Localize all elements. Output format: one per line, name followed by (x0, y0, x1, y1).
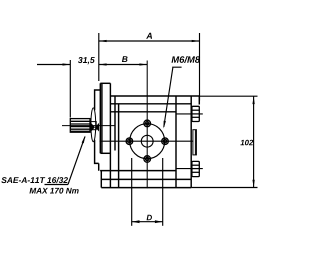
body internal vertical front (114, 96, 116, 151)
body front face (109, 83, 111, 187)
dimension D extension right (162, 158, 164, 226)
port pattern horizontal centerline (100, 140, 194, 142)
body internal line L5 (100, 170, 176, 172)
dimension A extension line right (rear of nuts) (199, 33, 201, 101)
body internal vertical front2 (118, 105, 120, 188)
seal section marks (bowtie) (91, 123, 95, 132)
stud axis bottom (176, 168, 203, 170)
stud axis top (176, 113, 203, 115)
label A (146, 33, 152, 39)
rear stud nut top (192, 106, 199, 121)
arrowhead D right (155, 220, 163, 223)
bolt hole right (162, 138, 169, 145)
body internal line L2 (110, 103, 191, 105)
port bolt circle (130, 124, 165, 159)
body internal line L4 (101, 178, 191, 180)
shaft centerline (62, 125, 115, 127)
leader M6/M8 (164, 67, 182, 127)
bolt hole top (144, 120, 151, 127)
dimension A extension line left (mounting face) (98, 33, 100, 81)
arrowhead A right (192, 40, 200, 42)
pilot/seal ellipse (91, 108, 96, 142)
label MAX 170 Nm (29, 188, 78, 194)
flange plate F2 (mounting face) (99, 83, 101, 153)
label 102 (240, 140, 253, 146)
body bottom (101, 187, 191, 189)
dimension 102 line (253, 96, 255, 187)
flange front plate F1 (95, 90, 101, 171)
label B (122, 56, 128, 62)
label D (147, 215, 152, 221)
dimension 102 bottom extension (191, 187, 257, 189)
arrowhead B left (99, 63, 107, 65)
dimension 102 top extension (199, 95, 257, 97)
body outline top (110, 95, 199, 97)
bolt hole left (126, 138, 133, 145)
label M6/M8 (172, 56, 201, 63)
splined shaft coupling (70, 119, 90, 133)
bottom-left step vertical (100, 171, 102, 188)
leader SAE shaft (68, 137, 85, 185)
rear plug bar (193, 130, 197, 155)
underline 16/32 (45, 184, 69, 186)
arrowhead 102 bottom (252, 180, 254, 188)
arrowhead 31,5 (63, 63, 71, 65)
port pattern vertical centerline (B extension) (146, 61, 148, 189)
shaft step cylinder (90, 122, 96, 130)
label SAE-A-11T 16/32 (1, 177, 68, 183)
dimension D extension left (131, 158, 133, 226)
rear cover top plate right edge (198, 96, 200, 104)
dimension B line (99, 64, 147, 66)
arrowhead B right (139, 63, 147, 65)
dimension 31,5 extension line (shaft end) (69, 60, 71, 118)
arrowhead M6/M8 (164, 121, 166, 129)
arrowhead A left (99, 40, 107, 42)
rear stud nut bottom (192, 161, 199, 176)
dimension A line (99, 40, 200, 42)
bolt hole bottom (144, 156, 151, 163)
label 31,5 (78, 57, 95, 64)
arrowhead SAE leader (82, 136, 86, 144)
rear cover face (190, 96, 192, 187)
arrowhead 102 top (252, 96, 254, 104)
dimension D line (132, 221, 163, 223)
port center bore (141, 135, 153, 147)
body internal line L3 (110, 111, 176, 113)
body/cover joint (175, 96, 177, 188)
dimension 31,5 line (outside left) (37, 64, 70, 66)
arrowhead D left (132, 220, 140, 223)
